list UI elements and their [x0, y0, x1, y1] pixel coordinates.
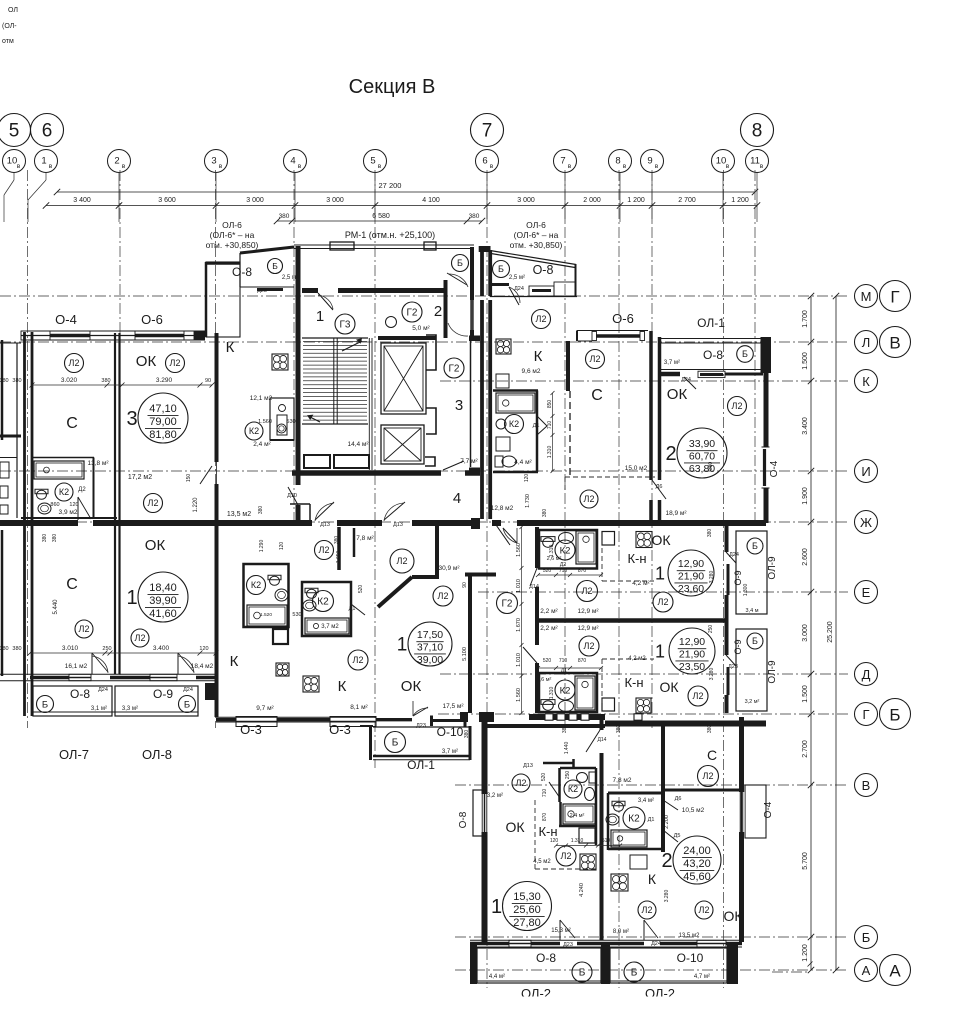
svg-text:860: 860: [50, 502, 59, 508]
svg-text:О-9: О-9: [733, 639, 743, 654]
svg-text:К2: К2: [560, 545, 571, 556]
svg-text:1: 1: [491, 896, 502, 918]
svg-text:12,1 м2: 12,1 м2: [250, 395, 273, 402]
svg-text:Л2: Л2: [642, 905, 653, 915]
svg-text:150: 150: [186, 474, 192, 483]
svg-text:в: в: [378, 163, 382, 170]
svg-text:Л2: Л2: [353, 655, 364, 665]
svg-text:Л2: Л2: [516, 778, 527, 788]
svg-text:ОЛ-7: ОЛ-7: [59, 747, 89, 762]
svg-text:Б: Б: [579, 968, 586, 979]
svg-text:О-4: О-4: [769, 460, 780, 477]
svg-text:ОК: ОК: [401, 678, 422, 695]
svg-text:3,9 м2: 3,9 м2: [59, 509, 78, 516]
svg-text:2: 2: [114, 156, 119, 167]
svg-text:1.670: 1.670: [516, 618, 522, 632]
svg-text:30,9 м²: 30,9 м²: [438, 565, 460, 572]
svg-text:в: в: [760, 163, 764, 170]
svg-text:60,70: 60,70: [689, 451, 715, 463]
svg-text:530: 530: [286, 419, 295, 425]
svg-text:8,0 м²: 8,0 м²: [613, 929, 629, 935]
svg-text:380: 380: [12, 646, 21, 652]
svg-text:380: 380: [707, 529, 713, 538]
svg-text:О-8: О-8: [703, 348, 723, 362]
svg-text:ОЛ-8: ОЛ-8: [142, 747, 172, 762]
svg-text:11: 11: [750, 156, 760, 167]
svg-text:Г2: Г2: [502, 599, 513, 610]
svg-text:Ж: Ж: [860, 515, 872, 530]
svg-text:90: 90: [462, 582, 468, 588]
svg-text:К: К: [534, 348, 543, 365]
svg-text:5.100: 5.100: [462, 647, 468, 661]
svg-text:Л2: Л2: [536, 314, 547, 324]
svg-text:250: 250: [102, 646, 111, 652]
svg-text:7,8 м²: 7,8 м²: [356, 535, 374, 542]
svg-text:3,2 м²: 3,2 м²: [745, 699, 760, 705]
svg-text:В: В: [862, 778, 871, 793]
svg-text:Д23: Д23: [563, 942, 573, 948]
svg-text:1.310: 1.310: [571, 838, 584, 844]
svg-text:О-9: О-9: [153, 687, 173, 701]
svg-text:Г2: Г2: [449, 364, 460, 375]
svg-text:К-н: К-н: [624, 675, 643, 690]
svg-text:ОК: ОК: [659, 679, 679, 695]
svg-text:Б: Б: [498, 264, 504, 274]
svg-text:43,20: 43,20: [683, 858, 711, 870]
svg-text:12,90: 12,90: [678, 558, 704, 570]
svg-text:К2: К2: [628, 814, 640, 825]
svg-text:380: 380: [42, 534, 48, 543]
svg-text:Д23: Д23: [728, 664, 738, 670]
svg-text:4,4 м²: 4,4 м²: [489, 974, 505, 980]
svg-text:К2: К2: [249, 426, 259, 436]
svg-text:2,5 м²: 2,5 м²: [282, 275, 298, 281]
svg-text:250: 250: [708, 625, 714, 634]
svg-text:А: А: [889, 962, 901, 981]
svg-text:О-8: О-8: [458, 811, 469, 828]
svg-text:ОК: ОК: [667, 386, 688, 403]
svg-text:Л2: Л2: [732, 401, 743, 411]
svg-text:1 200: 1 200: [627, 197, 645, 204]
svg-text:12,8 м2: 12,8 м2: [491, 505, 514, 512]
svg-text:530: 530: [292, 612, 301, 618]
svg-text:О-10: О-10: [437, 725, 464, 739]
svg-text:И: И: [861, 464, 870, 479]
svg-text:ОЛ-1: ОЛ-1: [697, 316, 725, 330]
svg-text:Л: Л: [862, 335, 871, 350]
svg-text:РМ-1 (отм.н. +25,100): РМ-1 (отм.н. +25,100): [345, 230, 435, 240]
svg-text:1: 1: [397, 635, 408, 656]
svg-text:2,4 м²: 2,4 м²: [570, 813, 585, 819]
svg-text:Б: Б: [184, 699, 190, 710]
svg-text:13,5 м2: 13,5 м2: [227, 511, 251, 518]
svg-text:8: 8: [615, 156, 620, 167]
svg-text:3.280: 3.280: [709, 668, 715, 681]
svg-text:10: 10: [716, 156, 727, 167]
svg-text:1.560: 1.560: [258, 419, 272, 425]
svg-text:О-3: О-3: [329, 722, 351, 737]
svg-text:2,2 м²: 2,2 м²: [540, 608, 558, 615]
svg-text:710: 710: [547, 421, 553, 430]
svg-text:в: в: [726, 163, 730, 170]
svg-text:1 200: 1 200: [731, 197, 749, 204]
svg-text:7,8 м2: 7,8 м2: [613, 777, 632, 784]
svg-text:С: С: [66, 415, 78, 432]
svg-text:в: в: [298, 163, 302, 170]
svg-text:К2: К2: [568, 784, 578, 794]
svg-text:Г3: Г3: [340, 320, 351, 331]
svg-text:Б: Б: [392, 738, 399, 749]
svg-text:(ОЛ-6* – на: (ОЛ-6* – на: [514, 230, 559, 240]
svg-text:2 000: 2 000: [583, 197, 601, 204]
svg-text:9,7 м²: 9,7 м²: [256, 705, 274, 712]
svg-text:2,6 м²: 2,6 м²: [537, 677, 552, 683]
svg-text:380: 380: [279, 213, 290, 220]
svg-text:Л2: Л2: [397, 556, 408, 566]
svg-text:Д10: Д10: [287, 493, 297, 499]
svg-text:39,90: 39,90: [149, 595, 177, 607]
svg-text:(ОЛ-6* – на: (ОЛ-6* – на: [210, 230, 255, 240]
svg-text:Б: Б: [742, 349, 748, 359]
svg-text:850: 850: [547, 400, 553, 409]
svg-text:К-н: К-н: [627, 551, 646, 566]
svg-text:520: 520: [541, 773, 547, 782]
svg-text:3 400: 3 400: [73, 197, 91, 204]
svg-text:2: 2: [434, 303, 442, 320]
svg-text:Л2: Л2: [590, 354, 601, 364]
svg-text:7: 7: [482, 121, 493, 142]
svg-text:8,1 м²: 8,1 м²: [350, 704, 368, 711]
svg-text:1: 1: [316, 308, 324, 325]
svg-text:О-10: О-10: [677, 951, 704, 965]
svg-text:Д6: Д6: [675, 796, 682, 802]
svg-text:Д24: Д24: [98, 687, 108, 693]
svg-text:380: 380: [708, 462, 714, 471]
svg-text:Л2: Л2: [79, 624, 90, 634]
svg-text:Д2: Д2: [78, 487, 86, 493]
svg-text:870: 870: [578, 658, 587, 664]
svg-text:1: 1: [41, 156, 46, 167]
svg-text:Д5: Д5: [674, 833, 681, 839]
svg-text:3,1 м²: 3,1 м²: [91, 706, 107, 712]
svg-text:1.310: 1.310: [549, 545, 555, 558]
svg-text:1.560: 1.560: [516, 543, 522, 557]
svg-text:О-8: О-8: [533, 263, 554, 277]
svg-text:3.020: 3.020: [61, 377, 78, 384]
svg-text:О-6: О-6: [612, 311, 634, 326]
svg-text:9: 9: [647, 156, 652, 167]
svg-text:О-6: О-6: [141, 312, 163, 327]
svg-text:5: 5: [370, 156, 375, 167]
svg-text:3.000: 3.000: [802, 624, 809, 642]
svg-text:Д14: Д14: [598, 737, 607, 743]
svg-text:4.240: 4.240: [579, 883, 585, 897]
svg-text:В: В: [889, 334, 900, 353]
svg-text:81,80: 81,80: [149, 429, 177, 441]
svg-text:К-н: К-н: [538, 824, 557, 839]
svg-text:17,5 м²: 17,5 м²: [442, 703, 464, 710]
svg-text:Д24: Д24: [183, 687, 193, 693]
svg-text:Л2: Л2: [584, 494, 595, 504]
svg-text:О-8: О-8: [232, 265, 252, 279]
svg-text:5.700: 5.700: [802, 852, 809, 870]
svg-text:250: 250: [565, 771, 571, 780]
svg-text:3 000: 3 000: [326, 197, 344, 204]
svg-text:Л2: Л2: [135, 633, 146, 643]
svg-text:39,00: 39,00: [417, 654, 443, 666]
svg-text:3 000: 3 000: [517, 197, 535, 204]
svg-text:870: 870: [578, 568, 587, 574]
svg-text:1.220: 1.220: [193, 497, 199, 513]
svg-text:18,40: 18,40: [149, 582, 177, 594]
svg-text:1.010: 1.010: [516, 653, 522, 667]
svg-text:С: С: [707, 747, 717, 763]
svg-text:520: 520: [543, 568, 552, 574]
svg-text:12,90: 12,90: [679, 636, 705, 648]
svg-text:1.560: 1.560: [516, 688, 522, 702]
svg-text:24,00: 24,00: [683, 845, 711, 857]
svg-text:К2: К2: [509, 419, 519, 429]
svg-text:120: 120: [199, 646, 208, 652]
svg-text:2.600: 2.600: [802, 548, 809, 566]
svg-text:К: К: [226, 339, 235, 356]
svg-text:2: 2: [661, 850, 672, 872]
svg-text:Секция В: Секция В: [349, 76, 436, 98]
svg-text:1.500: 1.500: [802, 685, 809, 703]
svg-text:Б: Б: [272, 261, 278, 271]
svg-text:Д14: Д14: [529, 584, 539, 590]
svg-text:380: 380: [616, 725, 622, 734]
svg-text:ОЛ-9: ОЛ-9: [767, 556, 778, 580]
svg-text:К2: К2: [251, 580, 261, 590]
svg-text:1.200: 1.200: [802, 944, 809, 962]
svg-text:3: 3: [455, 397, 463, 414]
svg-text:3,3 м²: 3,3 м²: [122, 706, 138, 712]
svg-text:О-3: О-3: [240, 722, 262, 737]
svg-text:К: К: [338, 678, 347, 695]
svg-text:45,60: 45,60: [683, 871, 711, 883]
svg-text:1.900: 1.900: [802, 487, 809, 505]
svg-text:в: в: [17, 163, 21, 170]
svg-text:О-9: О-9: [733, 570, 743, 585]
svg-text:1.310: 1.310: [549, 687, 555, 700]
svg-text:ОЛ-1: ОЛ-1: [407, 758, 435, 772]
svg-text:120: 120: [550, 838, 559, 844]
svg-text:10: 10: [7, 156, 18, 167]
svg-text:в: в: [49, 163, 53, 170]
svg-text:15,0 м2: 15,0 м2: [625, 465, 648, 472]
svg-text:в: в: [219, 163, 223, 170]
svg-text:380: 380: [52, 534, 58, 543]
svg-text:79,00: 79,00: [149, 416, 177, 428]
svg-text:4: 4: [453, 490, 461, 507]
svg-text:710: 710: [559, 658, 568, 664]
svg-text:18,9 м²: 18,9 м²: [665, 510, 687, 517]
svg-text:17,2 м2: 17,2 м2: [128, 474, 152, 481]
svg-text:710: 710: [559, 568, 568, 574]
svg-text:10,5 м2: 10,5 м2: [682, 807, 705, 814]
svg-text:33,90: 33,90: [689, 438, 715, 450]
svg-text:3.400: 3.400: [153, 645, 170, 652]
svg-text:Л2: Л2: [584, 641, 595, 651]
svg-text:Б: Б: [752, 636, 758, 646]
svg-text:15,30: 15,30: [513, 891, 541, 903]
svg-text:3,7 м²: 3,7 м²: [664, 360, 680, 366]
svg-text:6: 6: [42, 121, 53, 142]
svg-text:Г: Г: [890, 288, 899, 307]
svg-text:8: 8: [752, 121, 763, 142]
svg-text:870: 870: [542, 813, 548, 822]
svg-text:О-8: О-8: [70, 687, 90, 701]
svg-text:Б: Б: [42, 699, 48, 710]
svg-text:3.010: 3.010: [62, 645, 79, 652]
svg-text:12,9 м²: 12,9 м²: [577, 625, 599, 632]
svg-text:1.500: 1.500: [802, 352, 809, 370]
svg-text:1.290: 1.290: [259, 540, 265, 553]
svg-text:3,7 м²: 3,7 м²: [442, 749, 458, 755]
svg-text:О-4: О-4: [763, 801, 774, 818]
svg-text:С: С: [591, 387, 603, 404]
svg-text:Б: Б: [631, 968, 638, 979]
svg-text:380: 380: [0, 378, 9, 384]
svg-text:1.310: 1.310: [547, 446, 553, 459]
svg-text:3,4 м: 3,4 м: [746, 608, 759, 614]
svg-text:13,5 м2: 13,5 м2: [679, 933, 700, 939]
svg-text:ОК: ОК: [136, 353, 157, 370]
svg-text:12,9 м²: 12,9 м²: [577, 608, 599, 615]
svg-text:1.700: 1.700: [802, 310, 809, 328]
svg-text:37,10: 37,10: [417, 642, 443, 654]
svg-text:Д13: Д13: [320, 522, 330, 528]
svg-text:Д24: Д24: [651, 941, 661, 947]
svg-text:Л2: Л2: [319, 545, 330, 555]
svg-text:520: 520: [543, 658, 552, 664]
svg-text:Д1: Д1: [533, 423, 540, 429]
svg-text:16,1 м2: 16,1 м2: [65, 663, 88, 670]
svg-text:Б: Б: [752, 541, 758, 551]
svg-text:ОК: ОК: [505, 819, 525, 835]
svg-text:О-8: О-8: [536, 951, 556, 965]
svg-text:5.440: 5.440: [53, 599, 59, 615]
svg-text:3,2 м²: 3,2 м²: [487, 793, 503, 799]
svg-text:Д13: Д13: [523, 763, 533, 769]
svg-text:380: 380: [0, 646, 9, 652]
svg-text:2.700: 2.700: [802, 740, 809, 758]
svg-text:23,60: 23,60: [678, 583, 704, 595]
svg-text:Д24: Д24: [729, 552, 739, 558]
svg-text:6: 6: [482, 156, 487, 167]
svg-text:ОЛ-6: ОЛ-6: [222, 220, 242, 230]
svg-text:21,90: 21,90: [679, 649, 705, 661]
svg-text:3 000: 3 000: [246, 197, 264, 204]
svg-text:1: 1: [655, 641, 665, 661]
svg-text:4 100: 4 100: [422, 197, 440, 204]
svg-text:Д23: Д23: [257, 288, 267, 294]
svg-text:2,4 м²: 2,4 м²: [253, 441, 271, 448]
svg-text:27 200: 27 200: [379, 181, 402, 190]
svg-text:120: 120: [524, 474, 530, 483]
svg-text:17,50: 17,50: [417, 629, 443, 641]
svg-text:в: в: [490, 163, 494, 170]
svg-text:520: 520: [358, 585, 364, 594]
svg-text:Д1: Д1: [648, 817, 655, 823]
svg-text:А: А: [862, 963, 871, 978]
svg-text:47,10: 47,10: [149, 403, 177, 415]
svg-text:380: 380: [464, 730, 470, 739]
svg-text:23,50: 23,50: [679, 661, 705, 673]
svg-text:К: К: [648, 871, 657, 887]
svg-text:3,4 м²: 3,4 м²: [638, 798, 654, 804]
svg-text:К2: К2: [317, 597, 329, 608]
svg-text:380: 380: [258, 506, 264, 515]
svg-text:4,7 м²: 4,7 м²: [694, 974, 710, 980]
svg-text:13,8 м²: 13,8 м²: [87, 460, 109, 467]
svg-text:9,6 м2: 9,6 м2: [522, 368, 541, 375]
svg-text:1: 1: [655, 563, 665, 583]
svg-text:Л2: Л2: [170, 358, 181, 368]
svg-text:120: 120: [279, 542, 285, 551]
svg-text:ОЛ-9: ОЛ-9: [767, 660, 778, 684]
svg-text:4,4 м²: 4,4 м²: [514, 459, 532, 466]
svg-text:2.200: 2.200: [664, 815, 670, 829]
svg-text:в: в: [122, 163, 126, 170]
svg-text:(ОЛ-: (ОЛ-: [2, 23, 17, 30]
svg-text:1.650: 1.650: [336, 551, 342, 564]
svg-text:3.400: 3.400: [802, 417, 809, 435]
svg-text:27,80: 27,80: [513, 917, 541, 929]
svg-text:К2: К2: [59, 487, 69, 497]
svg-text:отм. +30,850): отм. +30,850): [206, 240, 259, 250]
svg-text:380: 380: [707, 725, 713, 734]
svg-text:О-4: О-4: [55, 312, 77, 327]
svg-text:Л2: Л2: [699, 905, 710, 915]
svg-text:380: 380: [562, 725, 568, 734]
svg-text:7,7 м²: 7,7 м²: [460, 458, 478, 465]
svg-text:120: 120: [69, 502, 78, 508]
svg-text:в: в: [623, 163, 627, 170]
svg-text:ОЛ-6: ОЛ-6: [526, 220, 546, 230]
svg-text:1.520: 1.520: [260, 612, 272, 618]
svg-text:21,90: 21,90: [678, 571, 704, 583]
svg-text:Б: Б: [862, 930, 871, 945]
svg-text:Д6: Д6: [656, 484, 663, 490]
svg-text:4: 4: [290, 156, 295, 167]
svg-text:Л2: Л2: [69, 358, 80, 368]
svg-text:К2: К2: [560, 685, 571, 696]
svg-text:ОК: ОК: [651, 532, 671, 548]
svg-text:Д13: Д13: [393, 522, 403, 528]
svg-text:2 700: 2 700: [678, 197, 696, 204]
svg-text:Л2: Л2: [693, 691, 704, 701]
svg-text:1.010: 1.010: [516, 579, 522, 593]
svg-text:90: 90: [205, 378, 211, 384]
svg-text:Д1: Д1: [349, 606, 356, 612]
svg-text:К: К: [862, 374, 870, 389]
svg-text:ОК: ОК: [145, 537, 166, 554]
svg-text:380: 380: [542, 509, 548, 518]
svg-text:Е: Е: [862, 585, 871, 600]
svg-text:в: в: [655, 163, 659, 170]
svg-text:7: 7: [560, 156, 565, 167]
svg-text:ОЛ: ОЛ: [8, 7, 18, 14]
svg-text:К: К: [230, 653, 239, 670]
svg-text:3: 3: [126, 408, 137, 430]
svg-text:2: 2: [665, 443, 676, 465]
svg-text:2,5 м²: 2,5 м²: [509, 275, 525, 281]
svg-text:4,2 м²: 4,2 м²: [632, 580, 650, 587]
svg-text:М: М: [861, 289, 872, 304]
svg-text:380: 380: [12, 378, 21, 384]
